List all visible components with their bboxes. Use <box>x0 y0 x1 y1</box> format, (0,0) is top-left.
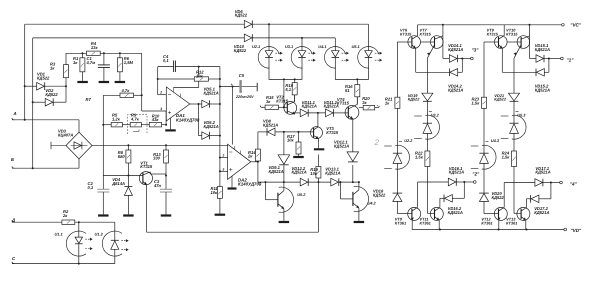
ground under C2 <box>98 214 109 216</box>
wire outer left vertical <box>24 24 26 121</box>
label VD12.2 <box>292 166 307 175</box>
resistor R12 <box>158 77 220 81</box>
wire column opto U3.2 <box>426 58 428 93</box>
label VD10 <box>234 44 247 53</box>
wire summing bus <box>219 67 221 187</box>
label VT10 <box>506 28 518 37</box>
label VD11.2 <box>324 100 339 109</box>
resistor R24 <box>512 151 522 213</box>
ground under R11 <box>215 214 226 216</box>
label VD1 <box>37 72 50 81</box>
diode VD11.1 <box>300 109 325 117</box>
svg-text:"2": "2" <box>472 172 480 177</box>
transistor VT4 <box>345 105 359 119</box>
wire A to bridge <box>78 120 80 132</box>
label U2.1 <box>252 44 260 49</box>
wire VT2 emitter diode row <box>295 113 301 114</box>
wire DA1 out <box>190 103 202 105</box>
diode VD17.2 <box>527 195 551 203</box>
label VD17.2 <box>534 206 549 215</box>
svg-text:VD17.2КД521А: VD17.2КД521А <box>534 206 549 215</box>
svg-text:"3": "3" <box>472 48 480 53</box>
op-amp DA2 <box>228 144 251 179</box>
opto U3.2 <box>414 111 439 151</box>
resistor R1 <box>80 53 85 81</box>
wire LED bracket right <box>335 70 368 80</box>
label U4.1 <box>318 44 326 49</box>
opto U2.2 <box>384 141 409 193</box>
wire VT9 collector <box>503 25 505 36</box>
wire VC rail <box>418 24 562 26</box>
diode VD10 <box>244 34 252 42</box>
capacitor C3 <box>160 176 172 215</box>
svg-text:R221,5к: R221,5к <box>415 151 424 160</box>
label VT8 <box>395 217 406 226</box>
node B terminal <box>11 157 79 169</box>
diode VD1 <box>25 82 67 90</box>
resistor R5 <box>111 123 122 127</box>
ground under C1 <box>99 81 110 83</box>
label C2 <box>88 181 94 190</box>
opto U5.3 <box>501 111 526 151</box>
diode VD18 <box>393 193 403 214</box>
label C4 <box>163 54 169 63</box>
ground under U4.2 <box>354 221 365 223</box>
label VD19 <box>408 93 421 102</box>
ground under R6 <box>115 81 126 83</box>
zener VD4 <box>124 176 132 215</box>
svg-text:VD15.2КД521А: VD15.2КД521А <box>535 84 550 93</box>
label VT6 <box>400 28 412 37</box>
wire DA1 pin3 <box>142 107 167 111</box>
label VD4 <box>111 177 125 186</box>
ground under DA2 <box>228 176 237 188</box>
wire DA2 pin2 <box>220 154 228 158</box>
diode VD19 <box>422 93 433 123</box>
diode VD5.1 <box>202 100 220 108</box>
label R4 <box>91 41 99 50</box>
transistor VT3 <box>311 113 323 139</box>
wire rail to pin3 <box>141 53 143 111</box>
transistor VT12 <box>494 183 507 230</box>
label C3 <box>153 179 162 188</box>
label VT1 <box>140 160 153 169</box>
wire VT4 emitter <box>352 119 354 152</box>
label VT12 <box>481 217 492 226</box>
label VD21 <box>494 93 507 102</box>
diode VD14.2 <box>449 69 462 77</box>
diode VD16.2 <box>440 195 464 203</box>
wire LED bracket left <box>269 70 302 80</box>
wire colA bottom corner <box>397 213 412 215</box>
wire VT2 base drop <box>283 79 285 108</box>
wire VD rail <box>412 229 564 231</box>
label VD6 <box>235 9 248 18</box>
resistor R18 <box>292 79 297 101</box>
transistor VT13 <box>517 199 530 230</box>
svg-text:2: 2 <box>222 154 225 158</box>
opto U2.1 LED <box>258 23 282 70</box>
trimmer box R9 <box>128 115 147 135</box>
terminal 3 <box>462 48 479 60</box>
opto U5.1 LED <box>358 24 382 70</box>
label VD2 <box>45 88 58 97</box>
wire VT8 collector row <box>418 181 449 183</box>
label U5.2 <box>297 192 306 197</box>
resistor R7 <box>103 93 141 125</box>
label U2.2 <box>404 138 413 143</box>
transistor VT1 <box>139 172 166 185</box>
svg-text:VD12.1КД521А: VD12.1КД521А <box>334 139 349 148</box>
label VD8 <box>263 119 278 128</box>
wire column colA <box>397 42 412 97</box>
op-amp DA1 <box>166 87 190 121</box>
resistor R11 <box>217 187 222 214</box>
label VD5.2 <box>204 120 219 129</box>
label VD16.2 <box>448 206 463 215</box>
label R18 <box>285 83 293 92</box>
wire VT7 collector rail <box>443 25 450 59</box>
wire column colA2 <box>484 42 499 97</box>
svg-text:U4.2: U4.2 <box>368 200 377 205</box>
svg-text:R241,5к: R241,5к <box>502 151 511 160</box>
label R16 <box>345 84 353 93</box>
terminal VC <box>562 22 582 27</box>
wire DA1 pin2 <box>157 67 167 95</box>
resistor R22 <box>425 151 435 213</box>
stray mark <box>374 138 380 147</box>
svg-text:VD12.2КД521А: VD12.2КД521А <box>292 166 307 175</box>
label VD18 <box>373 189 386 198</box>
node C terminal <box>12 256 115 265</box>
label VD16.1 <box>449 166 464 175</box>
opto U3.1 LED <box>291 37 315 70</box>
svg-text:R231,5к: R231,5к <box>472 97 481 106</box>
wire filter rail <box>66 52 142 54</box>
label VD12.1 <box>334 139 349 148</box>
svg-text:U3.2: U3.2 <box>431 113 440 118</box>
svg-text:220м×25V: 220м×25V <box>235 95 254 99</box>
svg-text:"VC": "VC" <box>570 22 582 27</box>
label VT3 <box>326 126 339 135</box>
diode VD14.1 <box>449 55 463 63</box>
svg-text:3: 3 <box>160 107 162 111</box>
wire VD5.2 branch <box>199 104 202 136</box>
label R5 <box>112 113 121 122</box>
diode VD12.2 <box>300 178 331 186</box>
label U4.3 <box>491 138 500 143</box>
transistor VT11 <box>430 198 443 229</box>
transistor VT8 <box>408 182 421 230</box>
label U5.1 <box>352 44 360 49</box>
svg-text:U1.3: U1.3 <box>95 232 104 237</box>
wire C4 hook to pin8 <box>174 67 199 88</box>
svg-text:U4.1: U4.1 <box>318 44 326 49</box>
wire top rail <box>25 23 245 25</box>
wire column colA2 mid <box>483 108 485 153</box>
label U3.2 <box>431 113 440 118</box>
svg-text:VD13.1КД521А: VD13.1КД521А <box>325 167 340 176</box>
label VD9.1 <box>269 165 284 174</box>
label VT4 <box>337 97 350 106</box>
transistor VT9 <box>495 36 508 49</box>
wire DA2 out <box>251 161 259 163</box>
label R21 <box>385 97 393 106</box>
diode VD17.1 <box>535 179 552 187</box>
label U1.1 <box>55 232 63 237</box>
wire chain drop <box>102 125 104 176</box>
label R8 <box>118 150 126 159</box>
wire VT4 collector <box>356 97 357 105</box>
diode VD15.2 <box>536 69 549 77</box>
diode VD9.1 <box>278 132 290 182</box>
label U1.2 <box>95 232 104 237</box>
svg-text:C5: C5 <box>239 73 245 78</box>
resistor R13 <box>164 145 169 176</box>
label U3.1 <box>285 44 293 49</box>
label R6 <box>124 56 134 65</box>
ground under R17 <box>293 156 304 158</box>
terminal 4 <box>551 181 578 186</box>
wire VT2 collector <box>294 95 296 102</box>
svg-text:4,7к: 4,7к <box>121 88 131 93</box>
resistor R8 <box>126 145 131 175</box>
terminal R20 output <box>377 105 379 107</box>
wire VT1 emitter <box>147 182 319 232</box>
wire VT6 emitter <box>416 48 450 72</box>
label VD5.1 <box>204 87 219 96</box>
svg-text:VD14.2КД521А: VD14.2КД521А <box>448 84 463 93</box>
svg-text:VD14.1КД521А: VD14.1КД521А <box>448 43 463 52</box>
wire C5 branch down <box>232 87 234 145</box>
svg-text:U4.3: U4.3 <box>491 138 500 143</box>
wire VD17.1 junction <box>550 183 552 199</box>
capacitor C2 <box>97 176 109 215</box>
terminal R15 input <box>260 106 262 108</box>
wire out row left <box>258 181 300 183</box>
label C1 <box>86 56 96 65</box>
label R23 <box>472 97 481 106</box>
label R9 <box>130 113 140 122</box>
svg-text:Д: Д <box>11 217 15 222</box>
wire VT10 collector rail <box>530 25 537 59</box>
label VT11 <box>420 217 431 226</box>
label VD17.1 <box>535 166 550 175</box>
capacitor C5 <box>220 80 257 93</box>
wire VT1 base <box>103 175 143 177</box>
resistor R23 <box>482 97 487 108</box>
label R22 <box>415 151 424 160</box>
svg-text:U5.3: U5.3 <box>517 113 526 118</box>
resistor R14 <box>255 132 260 182</box>
transistor VT6 <box>408 36 421 49</box>
label VD13.1 <box>325 167 340 176</box>
wire VT6 collector <box>417 25 419 36</box>
label VD15.1 <box>535 43 550 52</box>
svg-text:U2.1: U2.1 <box>252 44 260 49</box>
ground under U5.2 <box>279 221 290 223</box>
resistor R15 <box>262 105 287 109</box>
wire B to bridge <box>78 159 80 168</box>
diode VD15.1 <box>536 55 550 63</box>
label U5.3 <box>517 113 526 118</box>
opto U4.2 receiver <box>340 181 368 221</box>
transistor VT2 <box>284 102 297 115</box>
label R17 <box>287 134 295 143</box>
svg-text:2: 2 <box>159 91 162 95</box>
svg-text:VD16.2КД521А: VD16.2КД521А <box>448 206 463 215</box>
diode VD16.1 <box>448 178 465 186</box>
label VD14.1 <box>448 43 463 52</box>
terminal VD <box>564 228 582 233</box>
resistor R3 <box>64 53 69 86</box>
label VD15.2 <box>535 84 550 93</box>
svg-text:Б: Б <box>11 157 14 162</box>
ground under C3 <box>161 214 172 216</box>
resistor R20 <box>359 106 377 110</box>
svg-text:VD16.1КД521А: VD16.1КД521А <box>449 166 464 175</box>
label U4.2 <box>368 200 377 205</box>
svg-text:VD17.1КД521А: VD17.1КД521А <box>535 166 550 175</box>
label R14 <box>247 150 256 159</box>
label R2 <box>62 209 69 218</box>
wire VT9 emitter <box>502 48 536 72</box>
wire column opto U5.3 <box>513 58 515 93</box>
label VD11.1 <box>302 100 317 109</box>
wire column colA mid <box>396 108 398 153</box>
wire chain <box>102 124 167 126</box>
label VD3 <box>58 129 73 138</box>
wire VD14.1 junction <box>461 59 463 73</box>
svg-text:А: А <box>13 111 17 116</box>
opto U1.2 receiver <box>102 222 128 263</box>
label VT2 <box>276 95 289 104</box>
svg-text:U3.1: U3.1 <box>285 44 293 49</box>
svg-text:"1": "1" <box>567 58 575 63</box>
opto U4.3 <box>471 141 496 193</box>
wire inner rail <box>33 37 245 39</box>
diode VD20 <box>479 193 489 214</box>
label R24 <box>502 151 511 160</box>
ground under R1 <box>77 81 88 83</box>
label VD20 <box>492 191 505 200</box>
diode VD8 <box>258 128 314 136</box>
diode VD13.1 <box>331 178 360 186</box>
transistor VT7 <box>421 36 444 59</box>
label R3 <box>50 62 56 71</box>
label R19 <box>310 167 318 176</box>
resistor R2 <box>62 220 115 224</box>
label C5 <box>235 73 254 99</box>
svg-text:VD15.1КД521А: VD15.1КД521А <box>535 43 550 52</box>
ground under DA1 <box>165 118 176 130</box>
terminal 1 <box>549 57 574 62</box>
svg-text:2: 2 <box>374 138 380 147</box>
capacitor C1 <box>98 53 110 81</box>
resistor R4 <box>87 51 101 55</box>
node A terminal <box>12 111 79 120</box>
label R11 <box>211 186 219 195</box>
resistor R19 <box>316 155 321 184</box>
svg-text:U5.1: U5.1 <box>352 44 360 49</box>
label R20 <box>362 96 370 105</box>
diode VD21 <box>509 93 520 123</box>
wire VD15.1 junction <box>548 59 550 73</box>
wire VT12 collector row <box>504 182 535 184</box>
diode VD5.2 <box>202 132 220 140</box>
transistor VT10 <box>507 36 530 59</box>
wire inner rail right <box>252 37 335 39</box>
diode VD2 <box>33 86 66 106</box>
ground under VD4 <box>123 214 133 216</box>
label VT9 <box>487 28 499 37</box>
opto U5.2 receiver <box>265 182 293 221</box>
svg-text:U5.2: U5.2 <box>297 192 306 197</box>
node D terminal <box>11 217 62 222</box>
svg-text:"VD": "VD" <box>571 228 583 233</box>
svg-text:"4": "4" <box>570 182 578 187</box>
wire DA2 pin3 <box>220 167 228 171</box>
wire top rail right <box>252 23 368 25</box>
label DA1 pin2 <box>159 91 162 95</box>
wire VD16.1 junction <box>463 182 465 198</box>
svg-text:3: 3 <box>223 167 225 171</box>
label R7 <box>86 88 131 102</box>
wire inner left vertical <box>32 38 34 169</box>
label DA1 <box>176 113 200 122</box>
diode VD6 <box>244 20 252 28</box>
terminal 2 <box>464 172 480 184</box>
opto U1.1 LED <box>66 222 92 263</box>
label R12 <box>196 70 204 79</box>
label VT13 <box>506 217 517 226</box>
resistor R17 <box>296 132 301 156</box>
label R10 <box>151 113 160 122</box>
svg-text:VD11.1КД521А: VD11.1КД521А <box>302 100 317 109</box>
bridge rectifier VD3 <box>51 132 92 159</box>
resistor R16 <box>355 79 360 104</box>
diode VD11.2 <box>326 109 349 117</box>
resistor R6 <box>117 53 122 81</box>
label R13 <box>153 152 161 161</box>
svg-text:U2.2: U2.2 <box>404 138 413 143</box>
svg-text:R7: R7 <box>86 97 92 102</box>
resistor R10 <box>149 123 161 127</box>
label VT7 <box>420 28 432 37</box>
wire bridge plus rail <box>92 144 228 146</box>
label VD14.2 <box>448 84 463 93</box>
svg-text:U1.1: U1.1 <box>55 232 63 237</box>
resistor R9 <box>130 123 141 127</box>
opto U4.1 LED <box>324 38 348 70</box>
wire colA2 bottom corner <box>484 213 499 215</box>
resistor R21 <box>395 97 400 108</box>
wire VT3 emitter bar <box>314 139 324 150</box>
diode VD12.1 <box>347 152 359 183</box>
label R15 <box>266 95 274 104</box>
wire chain to pin3 <box>165 111 167 125</box>
capacitor C4 <box>158 61 220 73</box>
label DA2 <box>238 177 262 186</box>
label R1 <box>73 56 79 65</box>
